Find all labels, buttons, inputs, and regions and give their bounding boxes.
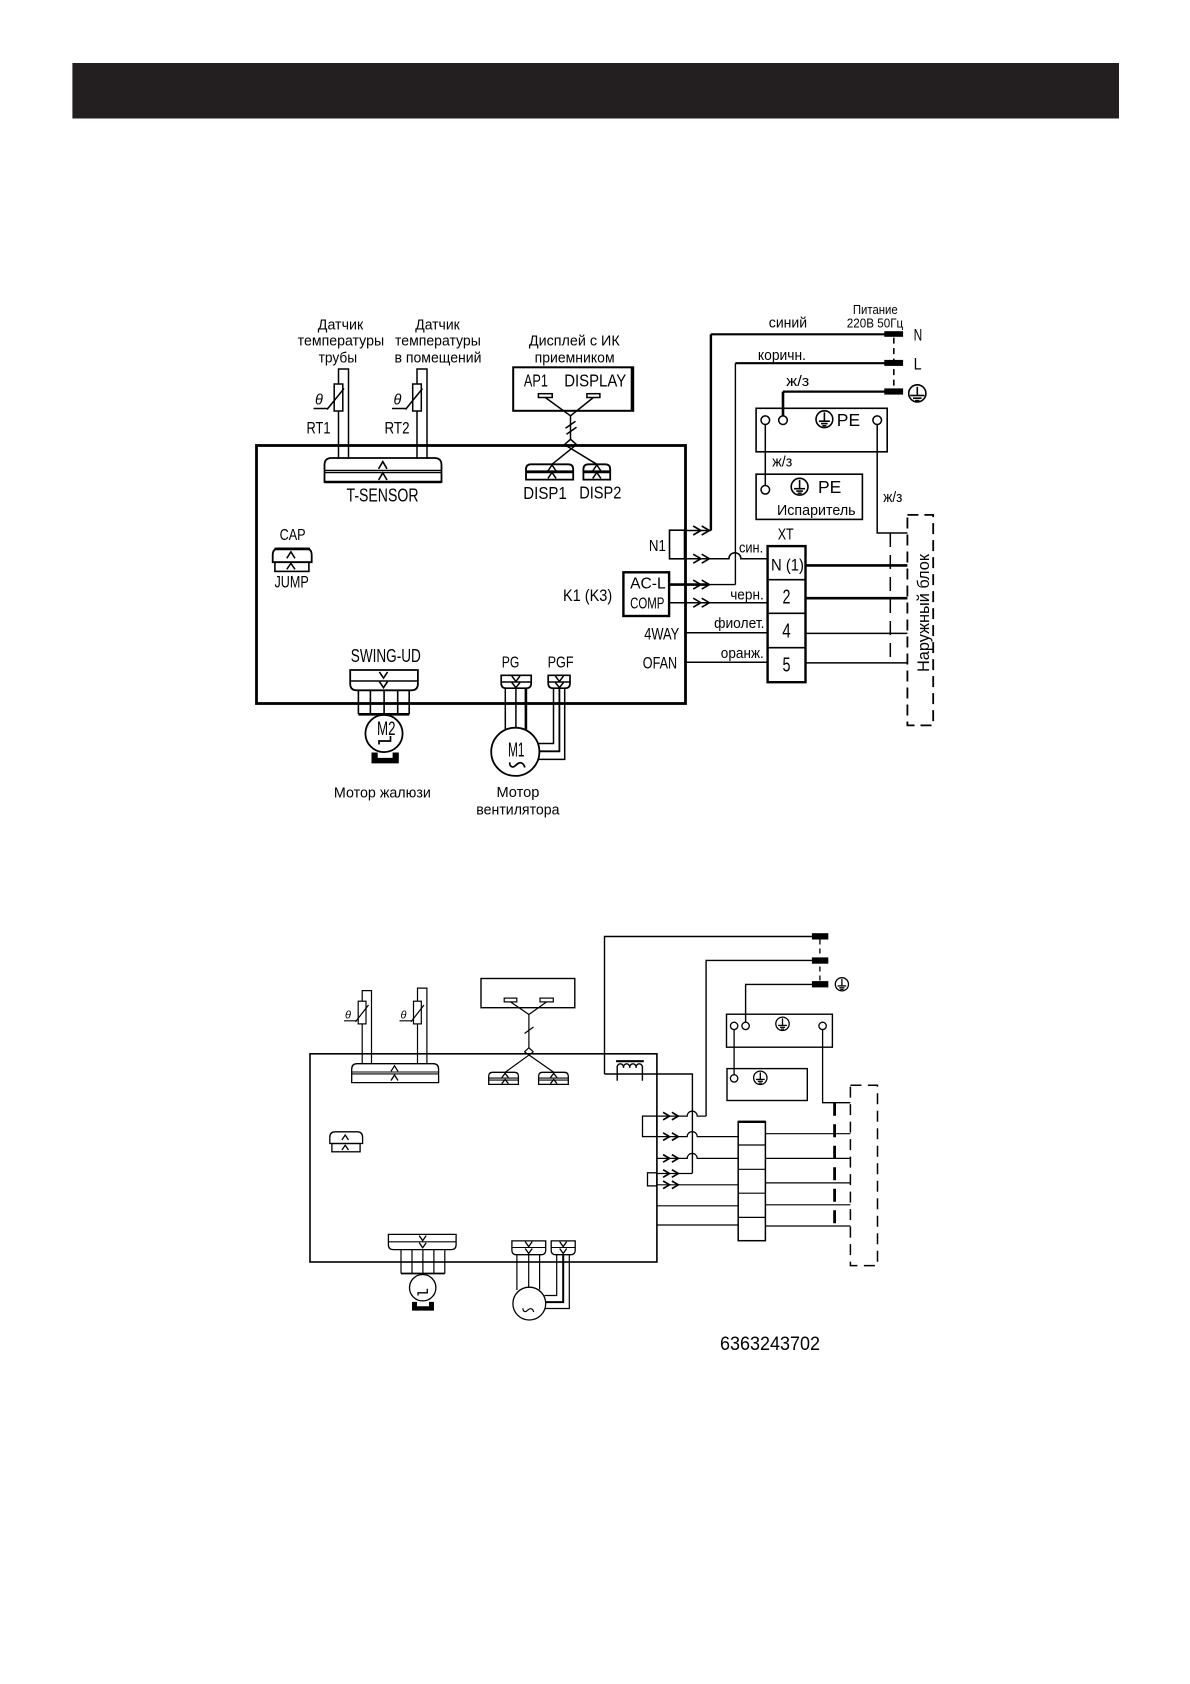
- svg-text:фиолет.: фиолет.: [714, 616, 764, 632]
- connector DISP2: [583, 464, 610, 479]
- svg-text:синий: синий: [769, 315, 807, 332]
- PE terminal box: [756, 408, 887, 452]
- wire PE1 right down (lower): [823, 1030, 851, 1103]
- svg-text:COMP: COMP: [630, 595, 664, 612]
- connector DISP1 (lower): [489, 1072, 519, 1084]
- label: Датчик температуры в помещений: [394, 316, 481, 366]
- wire row2 (lower): [657, 1132, 738, 1137]
- wire blue horizontal: [711, 333, 885, 335]
- svg-text:приемником: приемником: [535, 349, 615, 366]
- svg-text:2: 2: [783, 585, 791, 608]
- svg-text:N1: N1: [649, 538, 666, 555]
- svg-text:вентилятора: вентилятора: [476, 802, 560, 819]
- wire PG to M1 (lower): [517, 1255, 540, 1290]
- wire brown vertical: [734, 363, 736, 584]
- svg-text:Наружный блок: Наружный блок: [914, 553, 933, 672]
- terminal block XT: [768, 546, 806, 682]
- arrow chevrons row4: [693, 598, 709, 607]
- terminal circle PE2-1: [761, 486, 770, 495]
- connector PGF: [548, 675, 570, 688]
- svg-text:трубы: трубы: [319, 349, 358, 366]
- svg-text:AC-L: AC-L: [630, 576, 666, 593]
- svg-text:XT: XT: [778, 526, 794, 543]
- earth symbol PE2: [791, 478, 808, 495]
- wire PE1 right to outdoor, yellow-green: [877, 425, 907, 534]
- connector N1: [670, 530, 685, 559]
- wire SWING-UD comb: [358, 690, 409, 714]
- svg-text:температуры: температуры: [298, 333, 385, 350]
- svg-text:DISPLAY: DISPLAY: [564, 371, 626, 391]
- connector rect 1 (lower): [643, 1116, 657, 1137]
- wire yellow-green (lower): [746, 984, 812, 1022]
- wire yellow-green horizontal: [783, 391, 885, 393]
- svg-text:θ: θ: [345, 1010, 351, 1022]
- display unit AP1 box: [513, 367, 633, 411]
- wire PGF to M1: [538, 688, 565, 759]
- svg-text:6363243702: 6363243702: [720, 1333, 820, 1355]
- svg-text:оранж.: оранж.: [721, 646, 764, 662]
- svg-text:ж/з: ж/з: [786, 374, 809, 390]
- svg-text:N: N: [914, 326, 923, 344]
- svg-text:Испаритель: Испаритель: [777, 502, 856, 519]
- outdoor unit dashed box: [907, 515, 933, 726]
- svg-text:θ: θ: [401, 1010, 407, 1022]
- wire XT N(1) to outdoor: [806, 564, 908, 567]
- wire XT 5 to outdoor: [806, 662, 908, 664]
- terminal bar L (lower): [812, 957, 828, 963]
- svg-text:OFAN: OFAN: [643, 655, 677, 673]
- thick dashed earth wire (lower): [833, 1103, 836, 1226]
- wire 4WAY to XT 4, violet: [686, 632, 768, 634]
- svg-text:RT1: RT1: [307, 420, 331, 438]
- connector DISP2 (lower): [539, 1072, 569, 1084]
- wire block to outdoor 1 (lower): [765, 1133, 850, 1135]
- terminal circle 1 (lower): [730, 1022, 737, 1029]
- display unit box (lower): [481, 979, 575, 1008]
- mount bracket M2 (lower): [412, 1302, 434, 1311]
- wire SWING comb (lower): [401, 1250, 445, 1274]
- wire display cable (lower): [505, 1002, 554, 1072]
- thermistor RT2 (lower): [400, 988, 427, 1064]
- connector PG (lower): [512, 1241, 546, 1255]
- header bar: [72, 63, 1119, 119]
- wire XT 4 to outdoor: [806, 632, 908, 634]
- svg-text:4: 4: [782, 619, 791, 642]
- motor M2 (lower): [410, 1275, 436, 1301]
- svg-text:PE: PE: [837, 410, 860, 430]
- connector SWING-UD: [350, 670, 418, 690]
- svg-text:L: L: [914, 356, 922, 374]
- svg-text:Датчик: Датчик: [318, 316, 364, 333]
- svg-text:ж/з: ж/з: [772, 455, 792, 471]
- pin AP1 left: [538, 394, 552, 398]
- terminal circle 2 (lower): [742, 1022, 749, 1029]
- PE evaporator box (lower): [727, 1069, 807, 1101]
- wire block to outdoor 5 (lower): [765, 1225, 850, 1227]
- pin right (lower): [540, 998, 553, 1002]
- svg-text:220В 50Гц: 220В 50Гц: [847, 315, 904, 330]
- earth symbol PE2 (lower): [754, 1071, 767, 1084]
- arrow chevrons row1: [693, 526, 709, 535]
- wire N1 top to power blue: [685, 530, 711, 532]
- wire row4 (lower): [657, 1173, 692, 1175]
- terminal circle PE2 (lower): [730, 1075, 737, 1082]
- wire AC-L to brown: [669, 583, 709, 586]
- svg-text:Датчик: Датчик: [415, 316, 460, 333]
- wire COMP to XT 2, black: [669, 602, 767, 604]
- connector PG: [501, 675, 531, 688]
- connector T-SENSOR: [325, 458, 442, 482]
- wire row7 (lower): [657, 1224, 738, 1226]
- wire row1 (lower): [657, 1111, 706, 1116]
- capacitor jumper component: [273, 548, 312, 571]
- inductor choke (lower): [616, 1061, 644, 1081]
- svg-text:θ: θ: [394, 393, 402, 409]
- terminal bar PE: [884, 388, 903, 394]
- wire block to outdoor 2 (lower): [765, 1157, 850, 1159]
- mount bracket M2: [372, 753, 399, 764]
- wire brown horizontal: [735, 362, 884, 364]
- wire PG to M1: [505, 688, 526, 730]
- svg-text:CAP: CAP: [280, 527, 306, 544]
- motor M1 (lower): [513, 1287, 546, 1320]
- terminal circle PE1-1: [761, 416, 770, 425]
- PE evaporator box: [756, 474, 862, 519]
- svg-text:температуры: температуры: [395, 333, 481, 350]
- wire brown (lower): [706, 960, 812, 1116]
- wire row6 (lower): [657, 1205, 738, 1207]
- svg-text:DISP1: DISP1: [523, 483, 567, 503]
- terminal circle 3 (lower): [819, 1022, 826, 1029]
- relay box AC-L COMP: [623, 572, 669, 616]
- svg-text:коричн.: коричн.: [758, 347, 806, 364]
- svg-text:Мотор: Мотор: [496, 784, 539, 801]
- terminal bar N: [884, 331, 903, 337]
- terminal circle PE1-2: [779, 416, 788, 425]
- label: Дисплей с ИК приемником: [529, 333, 620, 367]
- svg-text:Дисплей с ИК: Дисплей с ИК: [529, 333, 620, 350]
- main control board box: [257, 446, 686, 704]
- svg-text:син.: син.: [739, 540, 763, 556]
- svg-text:M2: M2: [377, 718, 396, 740]
- pin AP1 right: [587, 394, 600, 398]
- wire yellow-green vertical: [782, 392, 785, 417]
- arrow chevrons row2: [693, 554, 709, 563]
- outdoor unit dashed box (lower): [850, 1085, 877, 1265]
- wire N1 bottom to XT N(1), blue: [685, 553, 768, 559]
- wire row5 (lower): [657, 1184, 738, 1186]
- dashed link bars (lower): [819, 940, 821, 982]
- connector PGF (lower): [551, 1241, 575, 1255]
- dashed link N-L-PE: [893, 338, 895, 389]
- svg-text:PE: PE: [818, 477, 841, 497]
- svg-text:N (1): N (1): [771, 556, 804, 575]
- svg-text:PG: PG: [502, 655, 520, 672]
- wire PE1 to PE2 (lower): [733, 1030, 735, 1075]
- wire PGF to M1 (lower): [545, 1255, 570, 1309]
- PE terminal box (lower): [727, 1014, 833, 1047]
- thermistor RT1: [314, 369, 349, 459]
- terminal circle PE1-3: [873, 416, 882, 425]
- capacitor jumper component (lower): [330, 1132, 363, 1152]
- connector T-SENSOR (lower): [352, 1064, 439, 1083]
- motor M1: [491, 728, 539, 776]
- svg-text:θ: θ: [315, 393, 323, 409]
- earth symbol PE1 (lower): [776, 1017, 789, 1030]
- svg-text:в помещений: в помещений: [394, 349, 481, 366]
- arrow chevrons row3: [693, 580, 709, 589]
- label: Датчик температуры трубы: [298, 316, 385, 366]
- wire block to outdoor 3 (lower): [765, 1182, 850, 1184]
- svg-text:JUMP: JUMP: [275, 574, 309, 592]
- terminal block (lower): [738, 1122, 765, 1241]
- svg-text:ж/з: ж/з: [883, 490, 902, 506]
- svg-text:K1 (K3): K1 (K3): [563, 587, 612, 605]
- svg-text:AP1: AP1: [524, 371, 548, 391]
- motor M2: [365, 715, 402, 752]
- terminal bar N (lower): [812, 933, 828, 939]
- wire OFAN to XT 5, orange: [686, 661, 768, 663]
- svg-text:4WAY: 4WAY: [644, 626, 679, 644]
- thermistor RT1 (lower): [344, 991, 372, 1064]
- svg-text:5: 5: [783, 653, 791, 676]
- wire blue (lower): [605, 937, 812, 1075]
- terminal bar PE (lower): [812, 981, 828, 987]
- wire display cable: [545, 398, 597, 465]
- wire XT 2 to outdoor: [806, 597, 908, 600]
- terminal bar L: [884, 360, 903, 366]
- wire PE1 to PE2 yellow-green: [764, 425, 766, 486]
- svg-text:DISP2: DISP2: [579, 482, 621, 502]
- thermistor RT2: [392, 369, 427, 459]
- connector rect 2 (lower): [648, 1173, 657, 1186]
- svg-text:черн.: черн.: [730, 587, 764, 603]
- connector DISP1: [526, 464, 573, 479]
- svg-text:Мотор жалюзи: Мотор жалюзи: [334, 785, 431, 802]
- wire row3 (lower): [657, 1153, 738, 1158]
- svg-text:SWING-UD: SWING-UD: [351, 646, 421, 666]
- wire block to outdoor 4 (lower): [765, 1204, 850, 1206]
- connector SWING-UD (lower): [388, 1234, 456, 1249]
- svg-text:T-SENSOR: T-SENSOR: [347, 485, 419, 506]
- pin left (lower): [504, 998, 517, 1002]
- earth symbol PE1: [816, 411, 833, 428]
- earth symbol plug (lower): [835, 978, 848, 991]
- dashed earth wire down: [889, 533, 891, 663]
- svg-text:RT2: RT2: [385, 420, 410, 438]
- svg-text:PGF: PGF: [548, 655, 574, 672]
- main control board box (lower): [310, 1054, 657, 1262]
- svg-text:M1: M1: [508, 739, 525, 762]
- earth symbol at plug: [909, 385, 926, 402]
- wire to inductor branch: [605, 1074, 693, 1174]
- wire blue vertical: [710, 334, 712, 530]
